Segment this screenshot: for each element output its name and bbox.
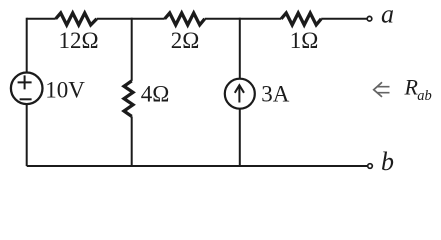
svg-text:10V: 10V	[45, 78, 85, 103]
svg-text:b: b	[381, 147, 394, 176]
svg-text:3A: 3A	[261, 82, 290, 107]
svg-text:1Ω: 1Ω	[290, 28, 319, 53]
svg-text:4Ω: 4Ω	[141, 81, 170, 106]
svg-text:2Ω: 2Ω	[171, 28, 200, 53]
svg-text:a: a	[381, 0, 394, 29]
svg-text:ab: ab	[417, 88, 432, 104]
svg-text:12Ω: 12Ω	[58, 28, 98, 53]
